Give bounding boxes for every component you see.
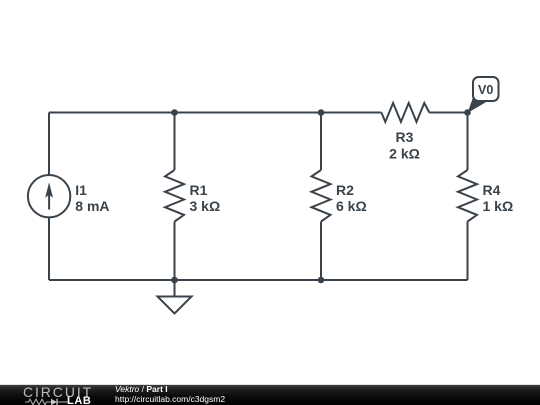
wire ground stub bbox=[174, 280, 176, 297]
wire from R3 right lead to node V0 bbox=[429, 112, 467, 114]
node junction dot on top rail at R1 bbox=[171, 109, 178, 116]
svg-text:3 kΩ: 3 kΩ bbox=[190, 198, 221, 214]
svg-text:1 kΩ: 1 kΩ bbox=[483, 198, 514, 214]
svg-text:6 kΩ: 6 kΩ bbox=[336, 198, 367, 214]
CircuitLab logo wordmark LAB bbox=[67, 396, 91, 405]
current source I1 arrow head bbox=[45, 182, 53, 197]
wire from resistor R4 bottom to bottom rail bbox=[467, 222, 469, 281]
svg-text:R1: R1 bbox=[190, 182, 208, 198]
ground symbol bbox=[158, 297, 192, 314]
wire from top rail down to resistor R2 bbox=[320, 113, 322, 171]
node V0 flag pointer wedge bbox=[468, 98, 488, 114]
CircuitLab logo wordmark CIRCUIT bbox=[23, 386, 93, 399]
resistor R1 body bbox=[165, 170, 184, 222]
svg-text:I1: I1 bbox=[75, 182, 87, 198]
wire from resistor R2 bottom to bottom rail bbox=[320, 222, 322, 281]
wire from top rail down to resistor R1 bbox=[174, 113, 176, 171]
current source I1 circle bbox=[28, 175, 70, 217]
node junction dot on bottom rail at R2 bbox=[318, 277, 325, 284]
wire top rail from left corner to R3 left lead bbox=[49, 112, 381, 114]
svg-text:2 kΩ: 2 kΩ bbox=[389, 145, 420, 161]
CircuitLab logo resistor-diode doodle bbox=[25, 398, 68, 405]
wire left branch: top rail corner down to current source I1 bbox=[48, 113, 50, 176]
node junction dot on top rail at R2 bbox=[318, 109, 325, 116]
footer bar bbox=[0, 384, 540, 405]
wire bottom rail bbox=[49, 279, 468, 281]
svg-text:R2: R2 bbox=[336, 182, 354, 198]
wire from current source I1 bottom to bottom rail bbox=[48, 217, 50, 280]
wire from resistor R1 bottom to bottom rail bbox=[174, 222, 176, 281]
resistor R4 body bbox=[458, 170, 477, 222]
current source I1 arrow shaft bbox=[48, 194, 50, 210]
resistor R3 body bbox=[381, 103, 429, 122]
footer title text Vektro / Part I bbox=[115, 384, 168, 394]
node V0 junction dot bbox=[464, 109, 471, 116]
wire from node V0 down to resistor R4 bbox=[467, 113, 469, 171]
svg-text:R3: R3 bbox=[396, 129, 414, 145]
svg-text:V0: V0 bbox=[478, 83, 493, 97]
footer url text bbox=[115, 394, 225, 404]
node V0 flag box bbox=[473, 77, 499, 101]
resistor R2 body bbox=[312, 170, 331, 222]
node junction dot on bottom rail at ground bbox=[171, 277, 178, 284]
svg-text:8 mA: 8 mA bbox=[75, 198, 109, 214]
svg-text:R4: R4 bbox=[483, 182, 501, 198]
